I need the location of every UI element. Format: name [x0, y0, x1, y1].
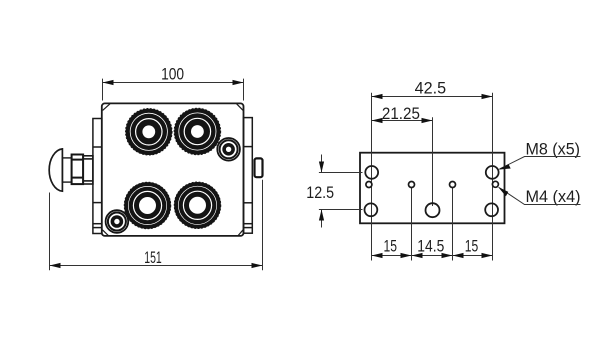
dimension 151 arrow left	[50, 263, 61, 268]
knob hex nut	[72, 155, 84, 185]
extension line left hole column	[371, 93, 373, 261]
left mounting flange	[93, 119, 102, 234]
dimension 12.5 top arrow	[319, 155, 324, 173]
dimension 100 arrow right	[233, 80, 244, 85]
corner chamfer line bottom-left	[102, 230, 108, 236]
svg-text:151: 151	[144, 249, 162, 267]
dimension 151 extension lines	[50, 180, 263, 270]
dimension 42.5 arrow right	[482, 94, 493, 99]
bottom dimension line chain	[372, 255, 493, 257]
dimension 100 arrow left	[103, 80, 114, 85]
knob neck	[62, 158, 71, 182]
dimension 15 right arrows	[453, 253, 464, 258]
small port bottom-left	[106, 210, 129, 233]
dimension 100 extension lines	[103, 79, 244, 101]
svg-text:42.5: 42.5	[415, 80, 447, 98]
svg-text:M4 (x4): M4 (x4)	[526, 188, 581, 206]
corner chamfer line bottom-right	[238, 230, 243, 236]
connector port top-left	[126, 109, 172, 155]
hole M8 bottom-right	[485, 203, 498, 216]
corner chamfer line top-right	[237, 104, 244, 111]
connector port bottom-right	[175, 182, 221, 228]
main housing box	[102, 103, 244, 236]
extension line center hole	[432, 117, 434, 206]
hole M4 mid-right	[450, 182, 456, 188]
hole M4 left	[366, 182, 372, 188]
svg-text:100: 100	[161, 66, 184, 84]
hole M8 top-right	[486, 166, 499, 179]
hole M8 top-left	[365, 166, 378, 179]
hole M4 mid-left	[409, 182, 415, 188]
dimension 12.5 bottom extension line	[319, 209, 363, 211]
hole M8 center	[426, 203, 440, 217]
right side tab	[255, 158, 263, 177]
svg-text:M8 (x5): M8 (x5)	[526, 141, 581, 159]
label M8 leader line	[500, 157, 581, 170]
dimension 12.5 top extension line	[319, 172, 363, 174]
extension line right hole column	[492, 93, 494, 261]
right mounting flange	[244, 118, 253, 234]
dimension 100 line	[103, 82, 244, 84]
small port top-right	[217, 138, 240, 161]
label M8 leader arrow	[498, 164, 510, 170]
svg-text:15: 15	[465, 238, 479, 256]
svg-text:21.25: 21.25	[382, 105, 420, 123]
dimension 151 line	[50, 265, 263, 267]
svg-text:14.5: 14.5	[417, 238, 444, 256]
dimension 151 arrow right	[252, 263, 263, 268]
connector port bottom-left	[125, 183, 171, 229]
label M4 leader line	[499, 188, 581, 205]
label M4 leader arrow	[498, 187, 508, 196]
extension line mid-left small hole	[411, 188, 413, 261]
hole M8 bottom-left	[365, 203, 378, 216]
mounting face plate	[360, 153, 505, 224]
knob bushing	[83, 156, 93, 184]
extension line mid-right small hole	[452, 188, 454, 261]
dimension 42.5 arrow left	[372, 94, 383, 99]
dimension 12.5 bottom arrow	[319, 210, 324, 228]
dimension 21.25 arrow right	[422, 118, 433, 123]
dimension 21.25 line	[372, 120, 433, 122]
dimension 42.5 line	[372, 96, 493, 98]
connector port top-right	[175, 109, 221, 155]
dimension 14.5 arrows	[412, 253, 423, 258]
dimension 21.25 arrow left	[372, 118, 383, 123]
svg-text:15: 15	[384, 238, 398, 256]
svg-text:12.5: 12.5	[306, 184, 334, 202]
corner chamfer line top-left	[103, 104, 110, 111]
dimension 15 left arrows	[372, 253, 383, 258]
hole M4 right	[492, 181, 498, 187]
knob dome cap	[49, 149, 62, 191]
